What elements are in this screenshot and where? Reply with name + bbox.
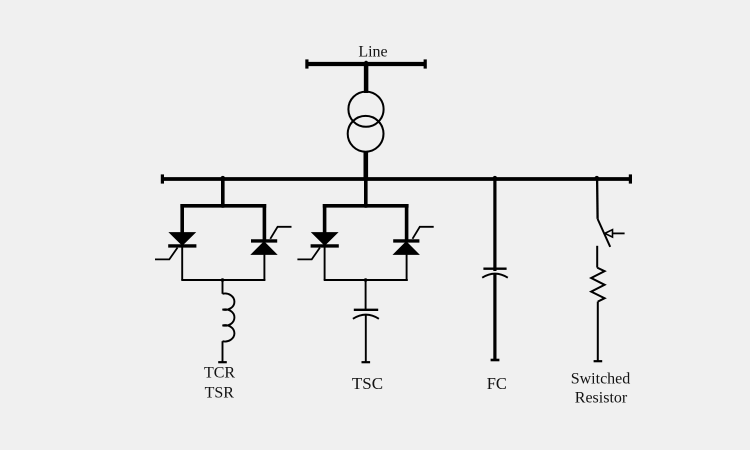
svg-text:TSC: TSC bbox=[352, 374, 383, 393]
node main bus bbox=[161, 177, 632, 181]
wire main bus to FC capacitor bbox=[493, 179, 496, 271]
thyristor TSC right cathode bar bbox=[393, 239, 419, 242]
main bus right end cap bbox=[629, 174, 632, 183]
thyristor TCR right (anode up) bbox=[252, 242, 277, 255]
thyristor TCR left cathode bar bbox=[168, 244, 196, 247]
wire main bus to TCR valve bbox=[221, 179, 225, 208]
wire TCR right leg bottom bbox=[263, 254, 265, 280]
wire TCR right leg top bbox=[263, 204, 267, 241]
Line bus right end cap bbox=[424, 59, 427, 68]
junction dot TCR valve bottom bbox=[221, 278, 225, 282]
svg-text:Line: Line bbox=[358, 44, 387, 61]
thyristor TSC left (anode down) bbox=[312, 233, 337, 246]
reactor terminal tick bbox=[218, 361, 227, 363]
thyristor TCR left (anode down) bbox=[170, 233, 195, 246]
wire TCR left leg bottom bbox=[181, 247, 183, 280]
transformer T1 primary winding bbox=[348, 92, 383, 127]
junction dot TSC valve top bbox=[364, 204, 368, 208]
junction dot TCR branch bbox=[221, 176, 226, 181]
wire transformer to main bus bbox=[363, 151, 368, 179]
svg-text:TCR: TCR bbox=[204, 365, 235, 382]
wire TSC capacitor bottom lead bbox=[365, 315, 367, 362]
wire reactor bottom lead bbox=[222, 341, 224, 362]
wire switch to resistor bbox=[596, 246, 598, 268]
wire TCR left leg top bbox=[180, 204, 184, 236]
wire main bus to TSC valve bbox=[364, 179, 368, 208]
wire TSC left leg bottom bbox=[324, 247, 326, 280]
inductor L1 TCR reactor bbox=[223, 293, 235, 341]
junction dot transformer branch bbox=[364, 176, 369, 181]
wire TSC right leg top bbox=[405, 204, 409, 241]
switch SW1 actuator line bbox=[613, 232, 625, 234]
wire TSC right leg bottom bbox=[406, 254, 408, 280]
resistor terminal tick bbox=[594, 360, 603, 362]
switch SW1 blade bbox=[598, 219, 611, 247]
svg-text:TSR: TSR bbox=[205, 385, 235, 402]
wire TSC valve bottom rail bbox=[324, 279, 408, 281]
wire TSC valve to capacitor bbox=[365, 280, 367, 310]
svg-text:FC: FC bbox=[487, 374, 507, 393]
node Line bus bbox=[306, 62, 427, 66]
capacitor C1 TSC curved plate bbox=[353, 315, 379, 319]
thyristor TSC right gate bbox=[413, 227, 434, 239]
junction dot TSC valve bottom bbox=[364, 278, 368, 282]
resistor R1 zigzag bbox=[591, 268, 604, 302]
main bus left end cap bbox=[161, 174, 164, 183]
Line bus left end cap bbox=[305, 59, 308, 68]
TSC terminal tick bbox=[362, 361, 371, 363]
thyristor TSC left cathode bar bbox=[311, 244, 339, 247]
thyristor TSC right (anode up) bbox=[394, 242, 419, 255]
thyristor TCR right gate bbox=[270, 227, 291, 239]
capacitor C2 FC top plate bbox=[483, 268, 506, 270]
thyristor TCR right cathode bar bbox=[251, 239, 277, 242]
FC terminal tick bbox=[491, 359, 500, 362]
junction dot FC branch bbox=[493, 176, 498, 181]
switch SW1 actuator arrow head bbox=[605, 230, 613, 237]
wire TSC valve top rail bbox=[323, 204, 409, 208]
wire Line bus to transformer bbox=[364, 64, 369, 93]
junction dot TCR valve top bbox=[221, 204, 225, 208]
wire TCR valve top rail bbox=[180, 204, 266, 208]
wire TCR valve to reactor bbox=[222, 280, 224, 294]
svg-text:Resistor: Resistor bbox=[575, 390, 628, 407]
thyristor TCR left gate bbox=[155, 248, 178, 260]
svg-text:Switched: Switched bbox=[571, 370, 631, 387]
thyristor TSC left gate bbox=[297, 248, 320, 260]
capacitor C1 TSC top plate bbox=[354, 309, 378, 311]
wire TCR valve bottom rail bbox=[181, 279, 265, 281]
capacitor C2 FC curved plate bbox=[482, 274, 508, 278]
junction dot switched resistor branch bbox=[595, 176, 600, 181]
wire resistor bottom lead bbox=[597, 302, 599, 361]
wire TSC left leg top bbox=[323, 204, 327, 236]
transformer T1 secondary winding bbox=[348, 116, 384, 152]
wire main bus to switch bbox=[596, 179, 599, 219]
junction dot at Line bus bbox=[364, 61, 368, 65]
wire FC bottom lead bbox=[493, 274, 496, 359]
